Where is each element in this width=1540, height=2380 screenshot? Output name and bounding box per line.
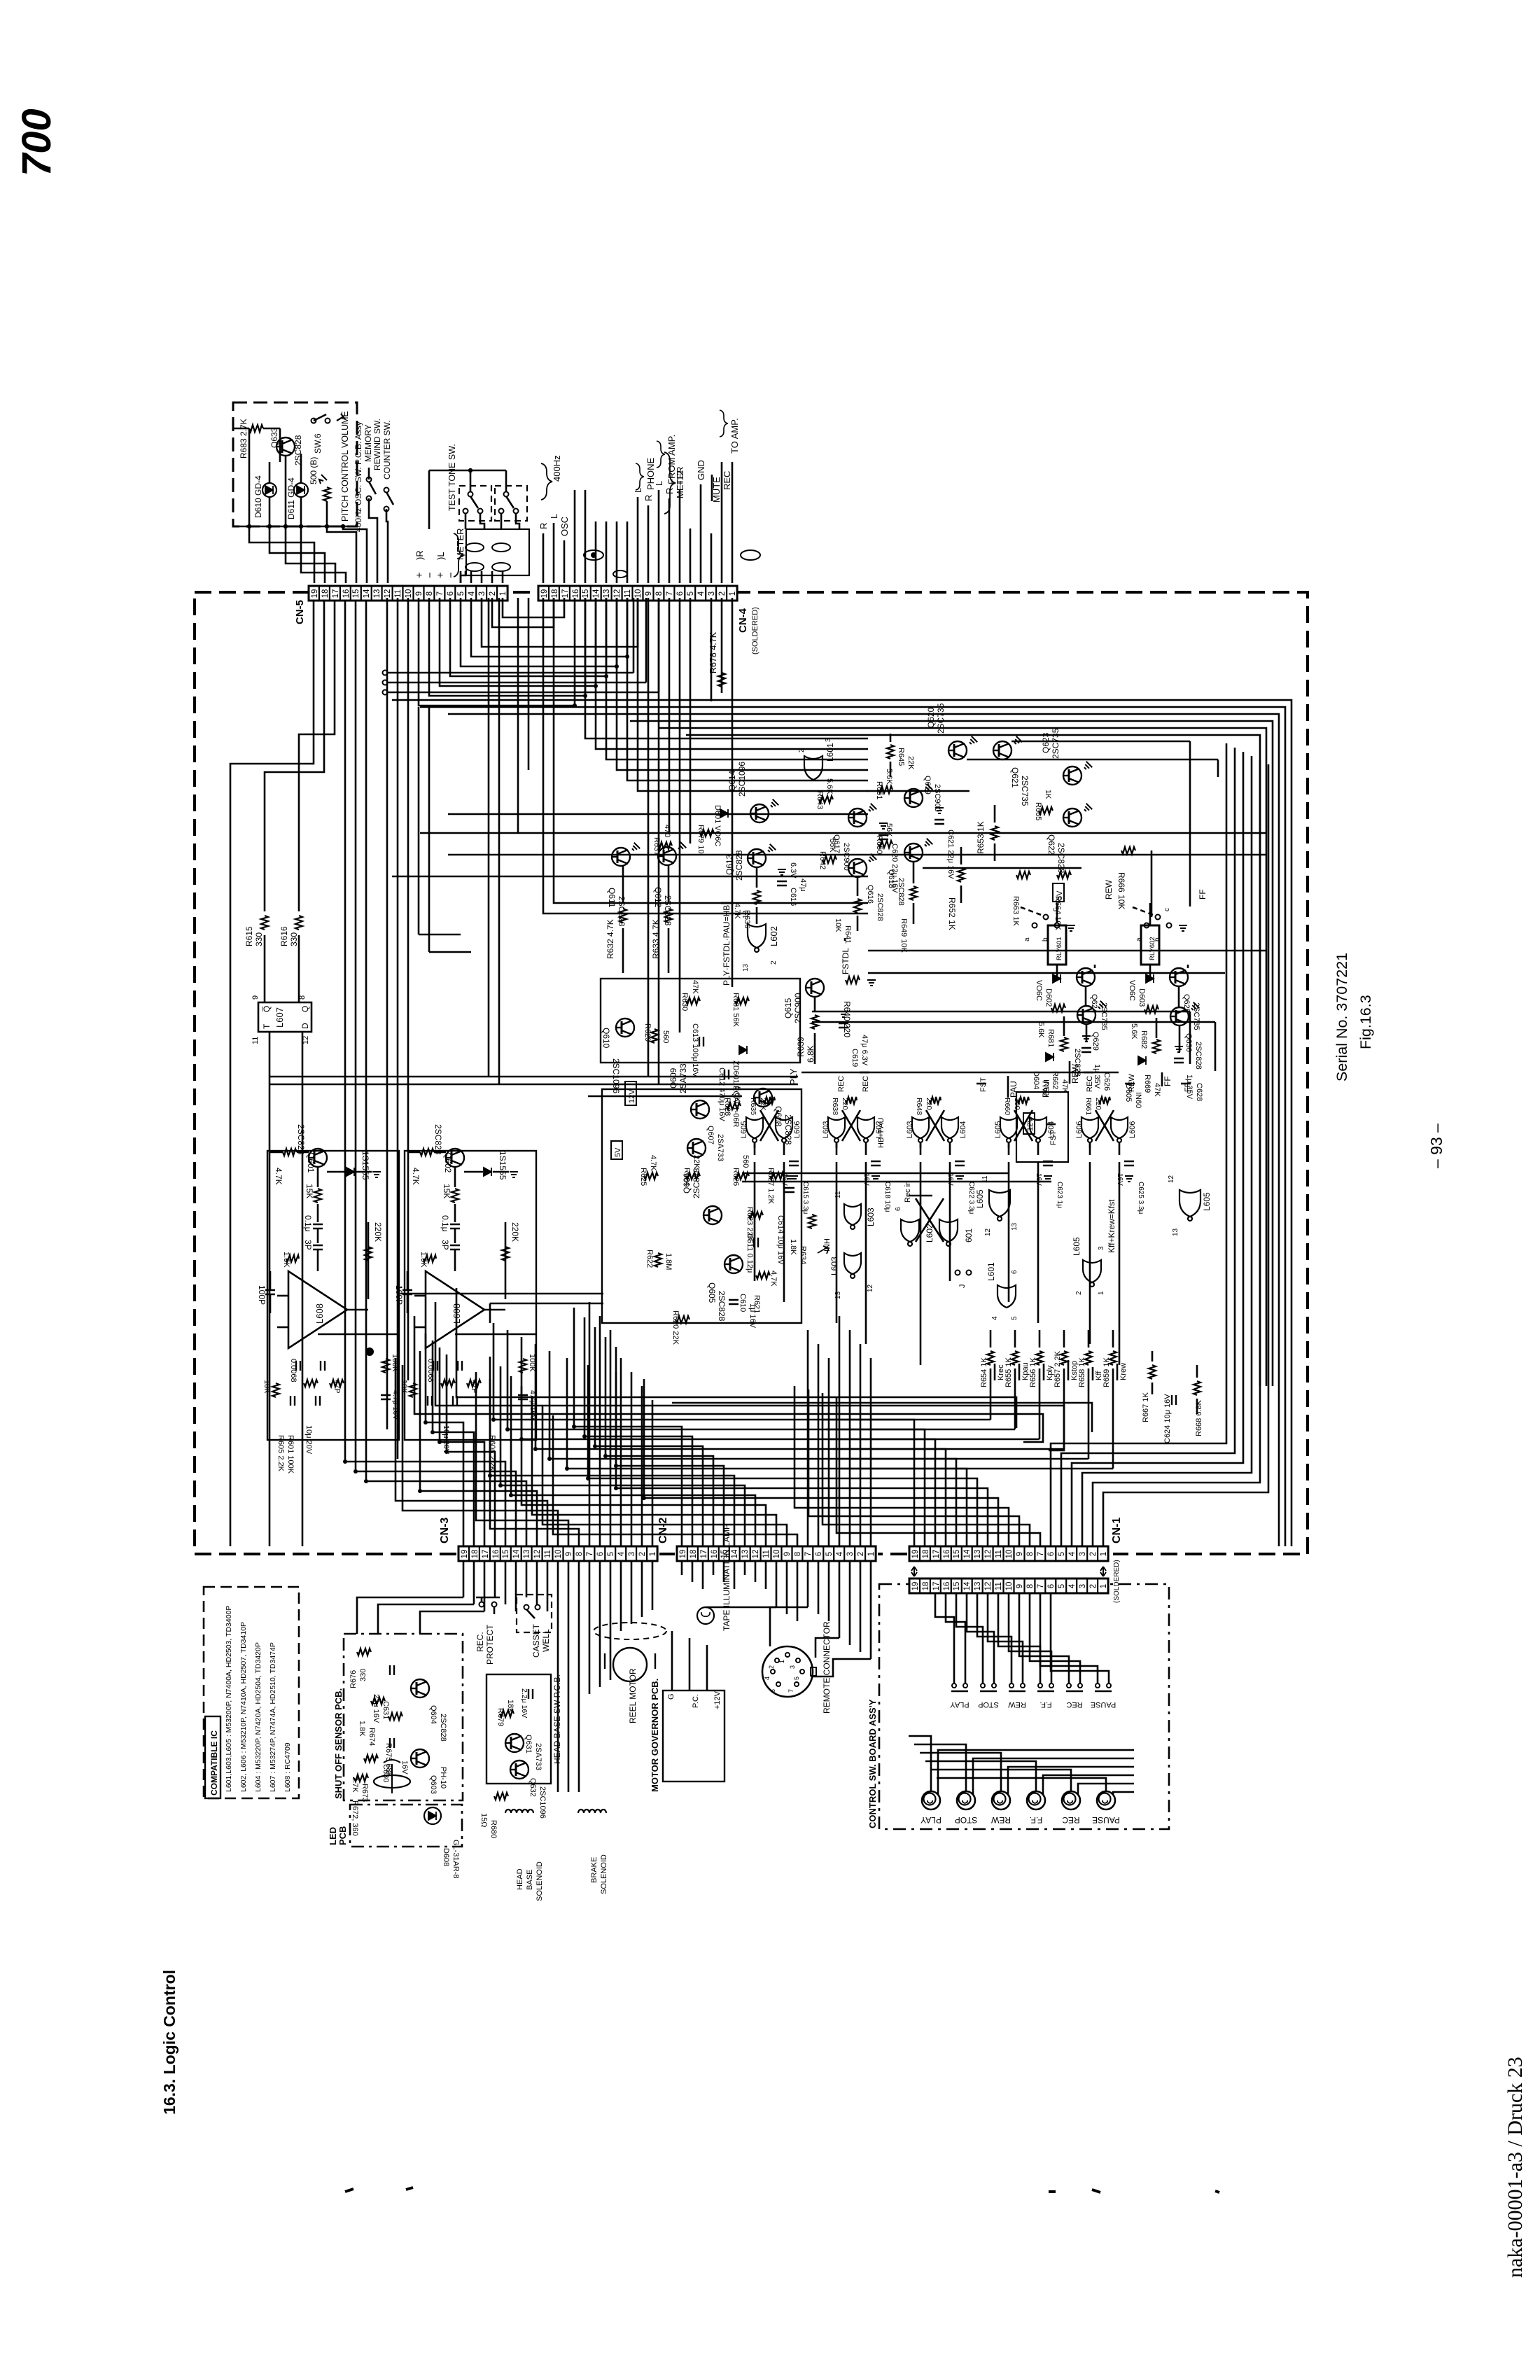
- svg-text:C619: C619: [850, 1049, 859, 1067]
- svg-text:5: 5: [687, 591, 695, 596]
- svg-text:MEMORY: MEMORY: [363, 424, 373, 462]
- svg-text:R634: R634: [799, 1246, 807, 1264]
- switch nest wires: [935, 1593, 954, 1683]
- slide switch STOP: [981, 1683, 985, 1688]
- svg-text:18: 18: [922, 1582, 930, 1591]
- svg-text:L: L: [549, 514, 559, 519]
- bottom nested bundle into CN-2: [574, 1308, 682, 1546]
- svg-text:J: J: [958, 1284, 967, 1289]
- svg-text:220: 220: [925, 1098, 933, 1110]
- resistor R640 220: [846, 976, 860, 983]
- slide switch REW: [1009, 1683, 1014, 1688]
- svg-text:T: T: [262, 1023, 272, 1029]
- gate L601 OR: [804, 756, 822, 780]
- svg-text:D604: D604: [1032, 1071, 1040, 1089]
- set resistor pair4 L605/L604: [1018, 1097, 1029, 1104]
- gate L601 lower: [997, 1285, 1016, 1308]
- svg-text:5: 5: [457, 591, 465, 596]
- label 5V box right: [1053, 883, 1064, 902]
- resistor R662 47K diode D604: [1060, 1037, 1067, 1051]
- overline Kstop: [1067, 1360, 1070, 1380]
- svg-text:15K: 15K: [442, 1184, 451, 1198]
- svg-text:100P: 100P: [394, 1285, 404, 1305]
- gate row drops to bottom band: [754, 1162, 756, 1281]
- svg-text:18: 18: [922, 1550, 930, 1559]
- svg-text:13: 13: [974, 1582, 982, 1591]
- svg-text:10: 10: [405, 589, 413, 598]
- svg-text:3: 3: [1079, 1584, 1087, 1588]
- push button PLAY: [922, 1791, 940, 1809]
- svg-text:17: 17: [332, 589, 340, 598]
- diode D601 VO6C: [720, 809, 728, 818]
- resistor R616 330: [295, 916, 302, 930]
- svg-text:PCB: PCB: [337, 1826, 348, 1845]
- capacitor C614 10u 16V: [785, 1188, 794, 1192]
- transistor Q631 2SA733: [505, 1734, 524, 1752]
- svg-text:12: 12: [984, 1550, 993, 1559]
- capacitor C626 1u 35V: [1081, 1048, 1091, 1052]
- svg-text:– 93 –: – 93 –: [1427, 1123, 1445, 1168]
- svg-text:2SA733: 2SA733: [716, 1134, 724, 1161]
- svg-text:R635: R635: [749, 1098, 757, 1115]
- svg-text:GL-31AR-8: GL-31AR-8: [451, 1840, 460, 1879]
- svg-text:17: 17: [932, 1582, 941, 1591]
- svg-text:8: 8: [575, 1552, 584, 1556]
- svg-text:19: 19: [911, 1550, 920, 1559]
- svg-text:14: 14: [512, 1549, 521, 1558]
- svg-text:16.3. Logic Control: 16.3. Logic Control: [160, 1970, 178, 2115]
- slide switch PAUSE: [1095, 1683, 1100, 1688]
- capacitor 2.2u 16V: [528, 1689, 533, 1699]
- svg-text:13: 13: [1172, 1228, 1179, 1236]
- svg-text:C628: C628: [1195, 1083, 1203, 1101]
- output network left: [277, 1295, 288, 1297]
- svg-text:3: 3: [628, 1552, 636, 1556]
- svg-text:16: 16: [943, 1550, 951, 1559]
- svg-text:2SC735: 2SC735: [1020, 776, 1030, 806]
- svg-text:FROM AMP.: FROM AMP.: [666, 435, 677, 484]
- svg-text:L602, L606 : M53210P, N74: L602, L606 : M53210P, N7410A, HD2507, TD…: [239, 1622, 248, 1792]
- svg-text:1: 1: [1100, 1552, 1108, 1556]
- svg-text:11: 11: [834, 1191, 842, 1198]
- CN-5 mid long drops: [386, 598, 388, 1429]
- svg-text:Q631: Q631: [524, 1735, 533, 1753]
- svg-text:7: 7: [666, 591, 674, 596]
- transistor Q629 2SC828: [1077, 1006, 1095, 1024]
- bottom RC network right: [433, 1361, 437, 1371]
- svg-text:L607 : M53274P,: L607 : M53274P, N7474A, HD2510, TD3474P: [269, 1642, 277, 1792]
- transistor Q612 2SC828: [658, 847, 676, 865]
- svg-text:R645: R645: [897, 748, 905, 766]
- svg-text:naka-00001-a3 / Druck 23: naka-00001-a3 / Druck 23: [1504, 2057, 1527, 2278]
- svg-text:1.8K: 1.8K: [789, 1239, 797, 1255]
- diode D602 VO6C: [1053, 974, 1060, 983]
- svg-text:5: 5: [1058, 1584, 1066, 1588]
- svg-text:CN-1: CN-1: [1111, 1518, 1123, 1543]
- resistor R675 68K: [388, 1713, 402, 1720]
- svg-text:L608: L608: [314, 1303, 325, 1324]
- very long bottom horizontals: [414, 1316, 1043, 1442]
- resistor R623 22K: [749, 1212, 763, 1219]
- svg-text:2: 2: [768, 1665, 775, 1669]
- svg-text:R632 4.7K: R632 4.7K: [605, 919, 615, 959]
- svg-text:R649 10K: R649 10K: [899, 918, 908, 953]
- transistor Q615 2SC900: [806, 979, 824, 997]
- diode 1S1555 right: [484, 1168, 491, 1176]
- svg-text:G: G: [667, 1693, 675, 1700]
- wires CN-2 down to blocks: [681, 1561, 683, 1575]
- svg-text:8: 8: [426, 591, 434, 596]
- hookups shutoff: [357, 1597, 463, 1634]
- CN-5 cell 19 wire to left bus: [230, 601, 314, 1546]
- svg-text:11: 11: [995, 1582, 1003, 1590]
- svg-text:D601 VO6C: D601 VO6C: [713, 805, 722, 846]
- compatible IC header box: [205, 1716, 220, 1798]
- svg-text:6.8K: 6.8K: [806, 1045, 815, 1063]
- resistor R664 10K: [1057, 871, 1071, 878]
- svg-text:R659 1K: R659 1K: [1102, 1357, 1111, 1387]
- diode D610 GD-4: [262, 483, 276, 497]
- svg-text:18: 18: [321, 589, 330, 598]
- resistor R659 1K: [1112, 1330, 1114, 1347]
- svg-text:R678 4.7K: R678 4.7K: [708, 631, 718, 673]
- svg-text:R637: R637: [652, 837, 661, 855]
- svg-text:Q̅: Q̅: [262, 1006, 272, 1012]
- svg-text:16V: 16V: [400, 1760, 409, 1774]
- svg-text:1.5K: 1.5K: [282, 1252, 290, 1268]
- svg-text:R656 1K: R656 1K: [1029, 1357, 1037, 1387]
- svg-text:3: 3: [478, 591, 486, 596]
- svg-text:SHUT OFF SENSOR PCB.: SHUT OFF SENSOR PCB.: [333, 1688, 344, 1799]
- open pair J: [955, 1270, 960, 1275]
- svg-text:D611 GD-4: D611 GD-4: [286, 477, 296, 519]
- svg-text:VO6C: VO6C: [1035, 980, 1043, 1001]
- svg-text:12: 12: [752, 1550, 760, 1559]
- svg-text:400Hz OSC. SW. P.C.B. Assy: 400Hz OSC. SW. P.C.B. Assy: [353, 421, 363, 532]
- svg-text:L603: L603: [829, 1256, 839, 1275]
- transistor Q620 2SC735: [948, 741, 967, 759]
- svg-text:R679 10: R679 10: [696, 825, 705, 854]
- svg-text:Q606: Q606: [682, 1172, 692, 1193]
- svg-text:3: 3: [825, 738, 832, 742]
- meter coil symbols near CN-4: [584, 550, 603, 560]
- CASSET WELL dashed box: [517, 1595, 552, 1632]
- svg-text:PAUSE: PAUSE: [1092, 1815, 1120, 1825]
- svg-text:Serial No. 3707221: Serial No. 3707221: [1333, 953, 1350, 1081]
- svg-text:220K: 220K: [510, 1222, 520, 1242]
- svg-text:PROTECT: PROTECT: [485, 1624, 495, 1665]
- connector CN-3: [458, 1546, 657, 1561]
- capacitor C632 0.1u right: [450, 1224, 460, 1228]
- resistor R649 10K: [913, 862, 915, 883]
- svg-text:11: 11: [995, 1550, 1003, 1558]
- svg-text:5: 5: [1011, 1316, 1018, 1320]
- gate L601 pair: [939, 1219, 958, 1246]
- svg-text:TO AMP.: TO AMP.: [729, 418, 740, 454]
- svg-text:470: 470: [663, 825, 671, 837]
- CN-2 direct drops: [807, 1330, 809, 1546]
- svg-text:15K: 15K: [304, 1184, 314, 1198]
- staircase wires CN-5 to CN-4: [419, 598, 575, 706]
- svg-text:BASE: BASE: [526, 1870, 534, 1890]
- svg-text:Q632: Q632: [528, 1778, 537, 1797]
- svg-text:2SC1096: 2SC1096: [538, 1786, 547, 1819]
- svg-text:R666 10K: R666 10K: [1116, 872, 1126, 909]
- right bundle turning into CN-1: [1051, 770, 1226, 1546]
- svg-text:4.7K: 4.7K: [769, 1270, 778, 1287]
- svg-text:(SOLDERED): (SOLDERED): [1113, 1560, 1121, 1603]
- resistor R609 15K left: [317, 1167, 319, 1187]
- svg-text:2SA733: 2SA733: [534, 1743, 542, 1770]
- label TO AMP: [720, 410, 728, 437]
- svg-text:FST: FST: [1049, 1130, 1058, 1145]
- interboard arrows: [911, 1567, 917, 1576]
- svg-text:R674: R674: [367, 1728, 376, 1746]
- svg-text:R639: R639: [796, 1037, 806, 1057]
- transistor Q625 2SC735: [1170, 968, 1188, 986]
- svg-text:330: 330: [289, 932, 299, 946]
- CN-3 direct drops: [589, 1302, 591, 1546]
- svg-text:Q612: Q612: [653, 887, 663, 908]
- svg-text:18: 18: [471, 1550, 479, 1559]
- svg-text:R669: R669: [1143, 1074, 1151, 1093]
- svg-text:CASSET: CASSET: [531, 1623, 541, 1658]
- svg-text:19: 19: [911, 1582, 920, 1591]
- svg-text:11: 11: [624, 589, 632, 598]
- wires pitch box down to connector CN-5: [249, 526, 314, 583]
- svg-text:+12V: +12V: [713, 1690, 722, 1709]
- transistor Q606 2SC828: [703, 1206, 722, 1224]
- svg-text:F.F.: F.F.: [1039, 1700, 1051, 1709]
- svg-text:SOLENOID: SOLENOID: [535, 1861, 544, 1901]
- transistor Q605 2SC828: [724, 1255, 743, 1273]
- transistor Q611 2SC828: [612, 848, 630, 866]
- svg-text:220K: 220K: [373, 1222, 383, 1242]
- svg-text:)R: )R: [414, 550, 425, 560]
- L607 output wires: [269, 1032, 271, 1546]
- svg-text:R668 6.8K: R668 6.8K: [1195, 1399, 1203, 1436]
- svg-text:R660: R660: [1003, 1098, 1011, 1115]
- capacitor C628 1u 35V: [1174, 1058, 1184, 1063]
- svg-text:4: 4: [991, 1316, 999, 1320]
- svg-text:L606: L606: [793, 1121, 801, 1138]
- svg-text:13: 13: [742, 963, 750, 972]
- svg-text:13: 13: [974, 1550, 982, 1559]
- relay RLY601: [1048, 925, 1066, 965]
- connector CN-4: [538, 586, 737, 601]
- svg-text:Q614: Q614: [727, 770, 737, 791]
- cross-coupling wires pair1 L605/L606: [754, 1143, 756, 1148]
- svg-text:R633 4.7K: R633 4.7K: [651, 919, 661, 959]
- resistors R625 R626 R627 cluster: [644, 1172, 658, 1179]
- central block frame box: [602, 1089, 801, 1323]
- svg-text:1.5K: 1.5K: [419, 1252, 428, 1268]
- switch SW.6: [311, 419, 316, 423]
- svg-text:3: 3: [789, 1665, 796, 1669]
- svg-text:D610 GD-4: D610 GD-4: [253, 475, 263, 518]
- svg-text:L603: L603: [906, 1121, 914, 1138]
- svg-text:L605: L605: [1202, 1192, 1212, 1211]
- control sw board dashed box: [879, 1584, 1169, 1829]
- set resistor pair5 L606/L606: [1099, 1097, 1110, 1104]
- resistor R681 5.6K: [1051, 1004, 1065, 1011]
- svg-text:R625: R625: [639, 1168, 647, 1186]
- svg-text:R663 1K: R663 1K: [1011, 896, 1020, 926]
- svg-text:R667 1K: R667 1K: [1142, 1392, 1150, 1422]
- svg-text:15: 15: [953, 1550, 961, 1559]
- capacitor C625 3.3μ pair5 L606/L606: [1124, 1161, 1134, 1165]
- transistor Q609 2SA733: [691, 1100, 709, 1119]
- svg-text:R650: R650: [875, 836, 883, 854]
- connector CN-2: [677, 1546, 876, 1561]
- resistor R652 1K: [960, 847, 962, 864]
- svg-text:L601: L601: [986, 1262, 996, 1281]
- gate pair pair1 L605/L606: [746, 1117, 763, 1142]
- svg-text:D608: D608: [442, 1848, 450, 1866]
- capacitor C623 1μ pair4 L605/L604: [1043, 1161, 1053, 1165]
- brace METER CN-4: [664, 452, 675, 514]
- svg-text:7: 7: [787, 1689, 794, 1693]
- svg-text:3: 3: [1079, 1552, 1087, 1556]
- resistor R632 4.7K: [622, 866, 624, 903]
- svg-text:L605: L605: [740, 1121, 748, 1138]
- compatible IC table dashed box: [204, 1587, 299, 1798]
- svg-text:REC: REC: [722, 471, 732, 490]
- resistor R651 5.6K: [878, 786, 892, 793]
- svg-text:Q629: Q629: [1091, 1032, 1100, 1051]
- svg-text:14: 14: [963, 1549, 972, 1558]
- resistor R655 1K: [1014, 1330, 1016, 1347]
- svg-text:R681: R681: [1046, 1029, 1055, 1047]
- svg-text:C625 3.3μ: C625 3.3μ: [1137, 1182, 1144, 1214]
- svg-text:13: 13: [373, 589, 381, 598]
- svg-text:(SOLDERED): (SOLDERED): [751, 607, 759, 654]
- svg-text:C630: C630: [381, 1764, 390, 1782]
- mid-right horizontal rails: [812, 1011, 1190, 1013]
- resistor R653 1K: [994, 805, 996, 822]
- svg-text:0.1μ: 0.1μ: [440, 1215, 450, 1232]
- svg-text:4: 4: [617, 1551, 626, 1556]
- svg-text:Q610: Q610: [601, 1028, 611, 1049]
- svg-text:17: 17: [700, 1550, 708, 1559]
- diode D603 VO6C: [1146, 974, 1154, 983]
- overline Krew: [1116, 1364, 1119, 1380]
- svg-text:5.6K: 5.6K: [1130, 1023, 1138, 1039]
- transistor Q633: [276, 437, 295, 456]
- svg-text:5.6K: 5.6K: [885, 769, 893, 785]
- connector control board connector: [909, 1578, 1108, 1593]
- svg-text:REW: REW: [1008, 1700, 1026, 1709]
- svg-text:L601,L603,L605 : M53200P, N740: L601,L603,L605 : M53200P, N7400A, HD2503…: [225, 1606, 233, 1792]
- resistor R674 1.8K: [371, 1697, 385, 1704]
- svg-text:Q620: Q620: [926, 707, 936, 728]
- svg-text:1: 1: [499, 591, 507, 596]
- svg-text:PLAY: PLAY: [920, 1815, 941, 1825]
- svg-text:LED: LED: [328, 1827, 338, 1845]
- resistor R615 330: [261, 916, 268, 930]
- bottom nested bundle into CN-1 long runs: [493, 1323, 914, 1546]
- resistor R 4.7K right: [420, 1149, 434, 1156]
- transistor Q603 PH-10: [411, 1749, 429, 1767]
- svg-text:13: 13: [741, 1550, 750, 1559]
- svg-text:6: 6: [895, 1207, 902, 1211]
- svg-text:500 (B): 500 (B): [309, 457, 318, 484]
- svg-text:10: 10: [1005, 1550, 1014, 1559]
- svg-text:C610: C610: [738, 1294, 747, 1312]
- svg-text:220: 220: [841, 1098, 849, 1110]
- svg-text:9: 9: [415, 591, 423, 596]
- svg-text:2SC828: 2SC828: [692, 1168, 701, 1198]
- brake solenoid coil: [578, 1809, 606, 1813]
- svg-text:220: 220: [1094, 1098, 1102, 1110]
- svg-text:11: 11: [544, 1550, 552, 1558]
- capacitor C615 3.3μ pair1 L605/L606: [789, 1161, 799, 1165]
- resistor R645 22K: [890, 734, 892, 742]
- svg-text:R: R: [538, 523, 549, 529]
- svg-text:47μ 6.3V: 47μ 6.3V: [860, 1035, 869, 1066]
- svg-text:47K: 47K: [1153, 1083, 1161, 1097]
- svg-text:CN-2: CN-2: [657, 1518, 669, 1543]
- feedback resistor 220K left: [367, 1222, 370, 1299]
- bottom nested bundle into CN-3: [426, 1333, 463, 1546]
- diode 1S1555 left: [346, 1168, 354, 1176]
- meter movement symbols: [465, 543, 484, 552]
- svg-text:Q616: Q616: [866, 885, 874, 904]
- svg-text:7: 7: [804, 1552, 813, 1556]
- svg-text:MOTOR GOVERNOR PCB.: MOTOR GOVERNOR PCB.: [650, 1679, 660, 1792]
- svg-text:7: 7: [1037, 1584, 1045, 1588]
- top right nested corner bundle: [392, 700, 1291, 1546]
- svg-text:8: 8: [794, 1552, 802, 1556]
- svg-text:R658 1K: R658 1K: [1078, 1357, 1086, 1387]
- svg-text:560: 560: [661, 1030, 670, 1043]
- zener ZD601 EQA01-06R: [739, 1046, 747, 1054]
- svg-text:C612 470μ 16V: C612 470μ 16V: [717, 1067, 726, 1121]
- svg-text:17: 17: [482, 1550, 490, 1559]
- resistor R621 4.7K: [756, 1272, 770, 1279]
- CN-4 straight drops: [647, 598, 650, 1077]
- svg-text:3P: 3P: [440, 1240, 450, 1250]
- hookups governor remote: [706, 1606, 776, 1609]
- svg-text:560: 560: [741, 1155, 750, 1168]
- svg-text:8: 8: [1026, 1584, 1035, 1588]
- relay RLY602: [1141, 925, 1159, 965]
- svg-text:4: 4: [1068, 1583, 1077, 1588]
- svg-text:STOP: STOP: [955, 1815, 977, 1825]
- svg-text:Q607: Q607: [706, 1126, 715, 1144]
- svg-text:16: 16: [943, 1582, 951, 1591]
- resistor R622 1.8M: [654, 1253, 661, 1267]
- svg-text:Fig.16.3: Fig.16.3: [1357, 995, 1374, 1049]
- svg-text:REMOTE CONNECTOR: REMOTE CONNECTOR: [822, 1621, 832, 1714]
- svg-text:L601: L601: [825, 743, 835, 762]
- svg-text:1K: 1K: [1044, 790, 1052, 799]
- svg-text:15Ω: 15Ω: [479, 1813, 488, 1827]
- main board dashed border: [195, 592, 1308, 1554]
- svg-text:330: 330: [254, 932, 264, 946]
- svg-text:FF: FF: [1198, 889, 1207, 899]
- svg-text:9: 9: [1016, 1552, 1024, 1556]
- capacitor C621 22u 16V: [934, 820, 944, 824]
- capacitor 3P left: [313, 1245, 323, 1249]
- svg-text:C611 0.12μ: C611 0.12μ: [745, 1233, 754, 1273]
- svg-text:Q604: Q604: [429, 1705, 437, 1724]
- transistor Q601 2SC828: [309, 1149, 327, 1167]
- svg-text:L606: L606: [1128, 1121, 1137, 1138]
- svg-text:REC: REC: [1066, 1700, 1082, 1709]
- connector CN-1: [909, 1546, 1108, 1561]
- resistor R679 18K: [500, 1710, 514, 1717]
